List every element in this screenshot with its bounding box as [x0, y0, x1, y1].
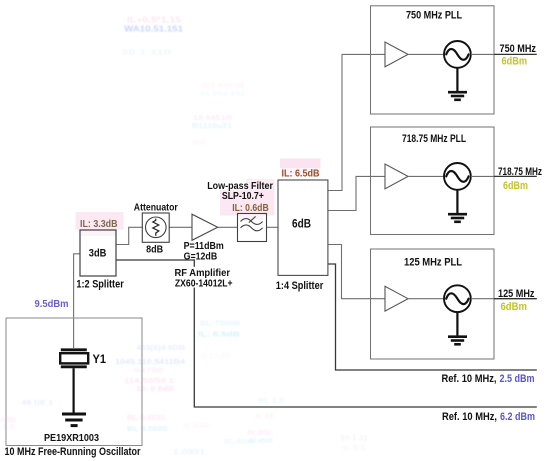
VCO oscillator circle (750 PLL): [444, 41, 471, 68]
VCO oscillator circle (718.75 PLL): [444, 163, 471, 190]
svg-text:1.0991: 1.0991: [173, 449, 205, 456]
svg-text:BL-7000B: BL-7000B: [200, 321, 240, 328]
svg-text:SLP-10.7+: SLP-10.7+: [222, 190, 264, 202]
svg-text:718.75 MHz PLL: 718.75 MHz PLL: [402, 133, 466, 145]
ground (oscillator): [62, 414, 86, 426]
amplifier (718.75 PLL): [385, 164, 408, 189]
svg-text:0.11dB: 0.11dB: [201, 353, 231, 360]
svg-text:Attenuator: Attenuator: [134, 202, 178, 214]
low-pass filter box: [238, 214, 267, 242]
svg-text:64700: 64700: [134, 368, 163, 375]
svg-text:BL 2.5: BL 2.5: [258, 398, 284, 405]
ground (125 PLL): [456, 312, 458, 335]
svg-text:IL: 3.3dB: IL: 3.3dB: [80, 218, 118, 230]
svg-text:40.4500: 40.4500: [249, 438, 273, 445]
svg-text:BL-0.0010: BL-0.0010: [127, 415, 165, 422]
svg-text:6dB: 6dB: [292, 218, 311, 230]
svg-text:750 MHz: 750 MHz: [500, 43, 537, 55]
svg-text:IL 5.1: IL 5.1: [343, 445, 365, 452]
svg-text:PE19XR1003: PE19XR1003: [44, 432, 99, 444]
svg-text:6dBm: 6dBm: [503, 180, 528, 192]
svg-text:10.1.11: 10.1.11: [340, 435, 368, 442]
svg-text:4dB: 4dB: [0, 417, 16, 424]
svg-text:6dBm: 6dBm: [501, 301, 528, 313]
wire crystal to ground: [72, 368, 74, 412]
svg-text:51 054 151: 51 054 151: [200, 91, 245, 98]
amplifier (750 PLL): [385, 42, 408, 67]
svg-text:18.9451B: 18.9451B: [193, 115, 232, 122]
wire 1:2 splitter out1 to attenuator: [116, 227, 142, 244]
wire 1:4 splitter out1 to 750 MHz PLL: [328, 54, 385, 190]
wire oscillator to 1:2 splitter: [74, 254, 80, 348]
low-pass filter symbol (waves with slash): [241, 216, 263, 230]
amplifier (125 PLL): [385, 286, 408, 311]
svg-text:1045.110.5411B4: 1045.110.5411B4: [115, 359, 185, 366]
wire amp to VCO (750 PLL): [408, 53, 444, 55]
svg-text:0.000: 0.000: [184, 423, 209, 430]
svg-text:3dB: 3dB: [89, 247, 107, 259]
125 MHz PLL box: [371, 249, 495, 359]
ground (718.75 PLL): [456, 190, 458, 213]
wire RF amplifier to low-pass filter: [218, 226, 238, 228]
wire 1:2 splitter out2 to Ref 6.2 dBm line: [116, 260, 537, 407]
wire amp to VCO (125 PLL): [408, 298, 444, 300]
wire VCO to output (750 PLL): [471, 53, 494, 55]
watermark artifacts (faint ghost text): [0, 15, 368, 457]
svg-text:8dB: 8dB: [146, 243, 163, 255]
svg-text:415 445 49: 415 445 49: [201, 83, 244, 90]
718.75 MHz PLL box: [371, 127, 495, 235]
wire 1:4 splitter out4 to Ref 2.5 dBm line: [328, 264, 537, 370]
highlight behind labels SLP-10.7+ / IL: 0.6dB: [246, 179, 275, 191]
highlight behind label IL: 3.3dB: [76, 212, 124, 230]
attenuator box: [142, 213, 169, 242]
ground (750 PLL): [456, 68, 458, 91]
svg-text:403(0)4 6DB: 403(0)4 6DB: [136, 345, 185, 352]
1:4 splitter box: [278, 180, 328, 275]
wire amp to VCO (718.75 PLL): [408, 175, 444, 177]
attenuator symbol (circle with zigzag): [146, 217, 167, 238]
wire 1:4 splitter out3 to 125 MHz PLL: [328, 245, 385, 299]
label background (RF Amplifier): [173, 267, 235, 288]
svg-text:Y1: Y1: [93, 352, 107, 366]
svg-text:125 MHz: 125 MHz: [498, 288, 535, 300]
crystal Y1: [60, 350, 88, 367]
svg-text:10 MHz Free-Running Oscillator: 10 MHz Free-Running Oscillator: [5, 446, 142, 458]
wire VCO to output (718.75 PLL): [471, 175, 494, 177]
svg-text:1:4 Splitter: 1:4 Splitter: [276, 280, 324, 292]
svg-text:BL 0.5000: BL 0.5000: [127, 426, 167, 433]
VCO oscillator circle (125 PLL): [444, 285, 471, 312]
svg-text:718.75 MHz: 718.75 MHz: [498, 166, 542, 178]
wire VCO to output (125 PLL): [471, 298, 494, 300]
svg-text:1.0: 1.0: [2, 424, 15, 431]
svg-text:WA10.51.151: WA10.51.151: [124, 24, 183, 34]
svg-text:ZX60-14012L+: ZX60-14012L+: [175, 277, 233, 289]
wire 1:4 splitter out2 to 718.75 MHz PLL: [328, 176, 385, 210]
750 MHz PLL box: [371, 6, 495, 114]
svg-text:B1110u21: B1110u21: [192, 123, 232, 130]
svg-text:6dBm: 6dBm: [502, 55, 528, 67]
svg-text:IL: 6.5dB: IL: 6.5dB: [282, 167, 320, 179]
wire attenuator to RF amplifier: [169, 226, 192, 228]
svg-text:40: 0000: 40: 0000: [247, 430, 271, 437]
svg-text:Ref. 10 MHz,2.5 dBm: Ref. 10 MHz,2.5 dBm: [442, 373, 535, 385]
svg-text:750 MHz PLL: 750 MHz PLL: [406, 10, 462, 22]
svg-text:IL: 4.5: IL: 4.5: [256, 413, 273, 420]
svg-text:30 1 110: 30 1 110: [121, 50, 171, 57]
oscillator enclosure box: [6, 318, 142, 446]
svg-text:9.5dBm: 9.5dBm: [35, 299, 69, 310]
wire low-pass filter to 1:4 splitter: [267, 226, 279, 228]
svg-text:IL: 6.5dB: IL: 6.5dB: [198, 332, 240, 339]
svg-text:G=12dB: G=12dB: [184, 250, 218, 262]
svg-text:66 DE 1: 66 DE 1: [22, 400, 53, 407]
svg-text:114.50/50 1: 114.50/50 1: [124, 378, 174, 385]
svg-text:IL: 0.6dB: IL: 0.6dB: [232, 202, 269, 214]
svg-text:Ref. 10 MHz,6.2 dBm: Ref. 10 MHz,6.2 dBm: [442, 411, 535, 423]
1:2 splitter box: [80, 230, 116, 276]
svg-text:84-: 84-: [192, 140, 209, 147]
highlight above label IL: 6.5dB: [280, 159, 321, 169]
RF amplifier triangle: [192, 214, 218, 240]
svg-text:1:2 Splitter: 1:2 Splitter: [76, 278, 124, 290]
svg-text:125 MHz PLL: 125 MHz PLL: [404, 256, 462, 268]
